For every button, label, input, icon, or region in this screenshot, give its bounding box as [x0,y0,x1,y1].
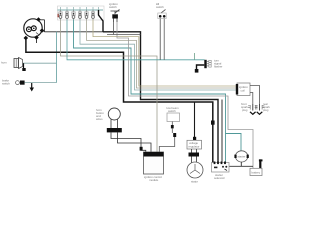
wire: band to stator [192,157,197,163]
regulator band [189,153,200,157]
spark plug 1 [248,104,258,114]
coil connector [236,84,238,95]
wire: headlight top tab east [40,19,45,21]
circuit breaker [259,159,263,161]
svg-text:plug: plug [242,108,248,112]
svg-text:starter: starter [238,155,246,159]
wire E: S3 teal to solenoid pin4 [74,20,226,163]
wire B: S6 to coil line 1 [93,20,236,87]
switch S2 [65,10,68,20]
connector bead on solenoid pin1 wire [211,121,215,125]
solenoid box [212,162,230,173]
wire: circle leg 1 [110,119,112,128]
stator [187,162,203,178]
wire: kill leg1 down to module [159,19,161,60]
wire A: main dark run east [45,31,104,33]
wire: brake switch east to riser [25,82,57,84]
wire J: key leg1 to y98 run [107,22,141,35]
relay ground [197,65,205,70]
red mark [58,14,59,17]
wire D: S4 to coil line 3 [80,20,236,91]
wire: regulator to band [192,149,197,153]
svg-text:coil: coil [241,89,246,93]
switch S5 [85,10,88,20]
wire: band to module 2 [118,132,152,152]
ignition coil [237,83,250,96]
wire: headlight right tab to main run A [44,30,45,33]
svg-text:module: module [149,178,159,182]
svg-text:wires: wires [96,117,103,121]
connector bead 2 low beam [173,133,176,137]
handlebar switch row housing [58,6,105,20]
relay K1 [204,60,211,68]
switch S1 [59,10,62,20]
wire: headlight SSE tab drop [36,39,38,43]
starter [234,151,248,162]
wire I: key leg2 gray to battery [117,22,253,168]
wire E branch: starter feed [226,134,242,152]
wire: drop from NNE run to main run [44,20,46,32]
switch bus wire [58,9,104,11]
ground arrow on brake wire [31,83,33,88]
wire: circle leg 2 [117,119,119,128]
wire: kill leg2 down to relay line [163,19,165,60]
relay green stub [194,53,196,60]
wire: coil to plug 1 [250,93,253,105]
wire: band to module 1 [111,132,146,152]
headlight HL1 [24,17,45,40]
ground riser: headlight to horn/brake [56,32,58,83]
wire: coil to plug 2 [250,86,260,105]
svg-text:switch: switch [2,82,10,86]
connector bead low beam [171,125,174,128]
svg-text:switch: switch [109,5,117,9]
connector bead on regulator feed [193,137,196,141]
wire: horn east to ground riser [23,62,57,64]
spark plug 2 [255,104,265,114]
wire H: S2 teal to relay [67,20,205,60]
connector band [107,128,122,132]
switch S3 [72,10,75,20]
svg-text:switch: switch [168,109,176,113]
switch stubs above bus [61,7,99,10]
svg-text:horn: horn [1,61,7,65]
battery [250,168,262,175]
wire G: S1 olive to module [61,20,158,153]
horn button circle [108,108,120,120]
svg-text:solenoid: solenoid [214,176,225,180]
svg-text:stator: stator [191,180,198,184]
wire A thick: lever junction east, down, to solenoid pin2 [103,32,218,163]
switch S6 [91,10,94,20]
horn [14,58,23,69]
brake switch [16,81,25,85]
wire: starter bottom to battery junction [229,162,253,166]
svg-text:regulator: regulator [189,145,200,149]
wire F branch: regulator feed [194,102,196,137]
wire: low beam to module [171,128,173,133]
wire F: headlight ground thick: down, east, to solenoid pin1 [26,40,213,163]
svg-text:battery: battery [252,171,261,175]
ground hook at horn [23,63,25,68]
svg-text:plug: plug [263,108,269,112]
switch lever S8 [99,10,104,32]
wire: low beam to module lower [159,137,174,152]
wire C: S5 to coil line 2 [87,20,237,89]
connector bead module feed [140,147,143,151]
svg-text:flasher: flasher [214,65,222,69]
wire: solenoid pin3 drop [221,100,223,163]
ignition module box [144,152,164,174]
kill switch [158,10,166,19]
voltage regulator box [187,140,202,149]
ignition key switch [111,10,120,23]
low beam box [167,113,180,122]
wire: low beam drop [171,122,173,126]
switch S4 [78,10,81,20]
svg-text:switch: switch [156,5,164,9]
